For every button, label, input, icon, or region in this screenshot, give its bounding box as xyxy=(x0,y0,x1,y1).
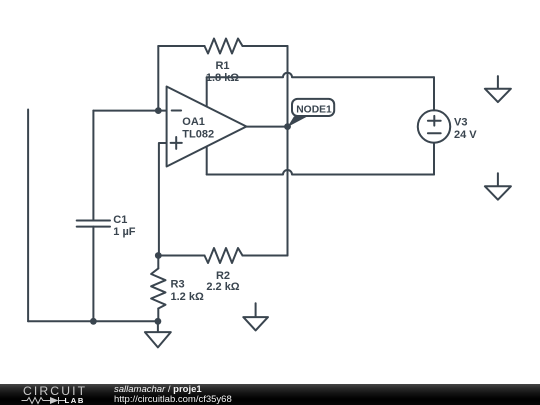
wire top horizontal right of R1 xyxy=(243,45,288,47)
wire left stub vertical xyxy=(27,110,29,322)
junction dot output node xyxy=(284,123,291,130)
wire inverting input xyxy=(93,110,166,112)
resistor R2 xyxy=(205,248,243,263)
wire positive supply rail with hop xyxy=(207,73,434,78)
wire R2 row left xyxy=(158,255,204,257)
node NODE1 pointer xyxy=(288,116,308,127)
wire feedback left vertical xyxy=(157,46,159,111)
wire C1 top branch xyxy=(92,111,94,221)
wire op-amp V+ pin xyxy=(206,77,208,106)
op-amp plus input symbol xyxy=(171,137,182,149)
wire V3 bottom stub xyxy=(433,143,435,175)
CircuitLab logo CIRCUIT xyxy=(23,386,87,396)
wire C1 bottom branch xyxy=(92,227,94,322)
ground mid right xyxy=(497,173,499,186)
wire V3 top stub xyxy=(433,77,435,110)
wire op-amp output xyxy=(246,126,287,128)
wire R2 row right xyxy=(243,255,288,257)
svg-text:C1: C1 xyxy=(113,214,127,226)
wire non-inverting input xyxy=(159,143,167,256)
svg-text:NODE1: NODE1 xyxy=(296,105,332,116)
svg-text:24 V: 24 V xyxy=(454,129,477,141)
svg-text:R3: R3 xyxy=(171,278,185,290)
op-amp OA1 body xyxy=(167,87,247,167)
footer bar xyxy=(0,384,540,405)
svg-text:TL082: TL082 xyxy=(182,129,214,141)
junction dot R3 bottom xyxy=(155,318,162,325)
ground floating center xyxy=(255,303,257,317)
junction dot R2 R3 non-inverting xyxy=(155,252,162,259)
svg-text:OA1: OA1 xyxy=(182,116,205,128)
junction dot inverting input xyxy=(155,107,162,114)
junction dot C1 bottom xyxy=(90,318,97,325)
wire node column vertical xyxy=(287,46,289,256)
resistor R3 xyxy=(157,256,159,269)
wire op-amp V- pin xyxy=(206,147,208,175)
CircuitLab logo LAB xyxy=(65,397,85,404)
svg-text:V3: V3 xyxy=(454,117,467,129)
wire bottom horizontal xyxy=(28,320,158,322)
svg-text:1.2 kΩ: 1.2 kΩ xyxy=(171,291,204,303)
node NODE1 label box xyxy=(292,99,334,116)
ground below R3 xyxy=(157,321,159,332)
svg-text:1 µF: 1 µF xyxy=(113,226,136,238)
capacitor C1 xyxy=(77,221,110,227)
op-amp minus input symbol xyxy=(172,110,181,112)
resistor R1 xyxy=(205,39,243,54)
wire top horizontal left of R1 xyxy=(158,45,204,47)
ground top right xyxy=(497,76,499,89)
wire negative supply rail with hop xyxy=(207,170,434,175)
svg-text:2.2 kΩ: 2.2 kΩ xyxy=(206,281,239,293)
footer credit line xyxy=(114,385,202,395)
footer url line xyxy=(114,395,232,405)
svg-text:R1: R1 xyxy=(215,60,229,72)
CircuitLab logo waveform and diode xyxy=(21,396,67,405)
voltage source V3 xyxy=(418,110,450,142)
svg-text:1.8 kΩ: 1.8 kΩ xyxy=(206,72,239,84)
